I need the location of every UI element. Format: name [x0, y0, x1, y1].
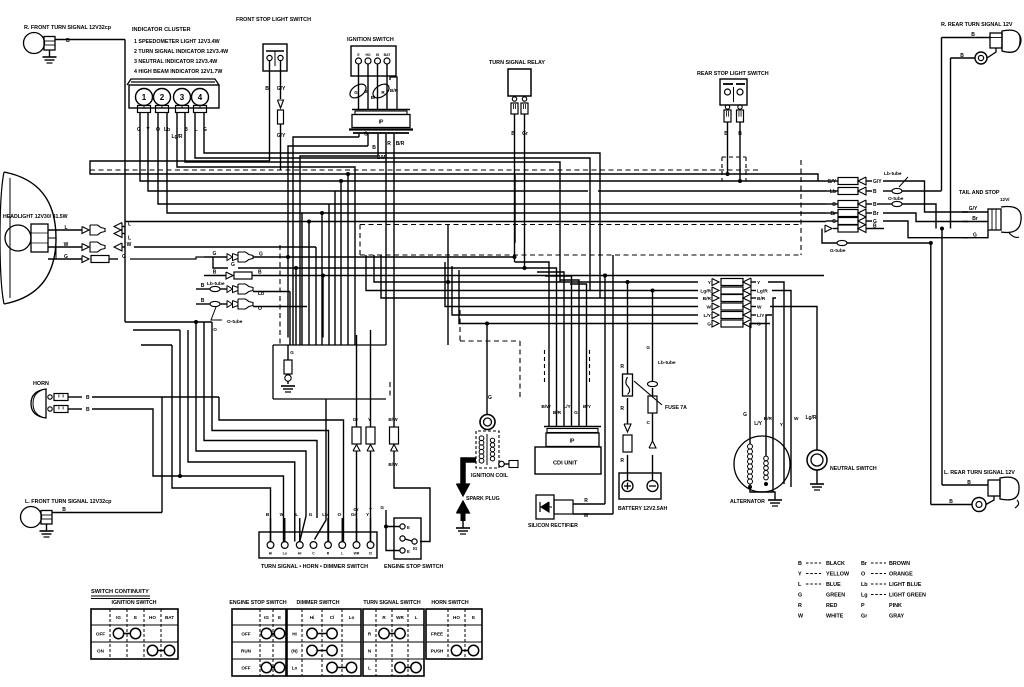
svg-text:2 TURN SIGNAL INDICATOR 12V: 2 TURN SIGNAL INDICATOR 12V3.4W: [134, 49, 228, 55]
wire G/Y tail: [962, 206, 988, 212]
ignition coil ring: [480, 415, 495, 430]
svg-text:Hi: Hi: [292, 632, 297, 637]
svg-text:ENGINE STOP SWITCH: ENGINE STOP SWITCH: [384, 564, 444, 570]
label R REAR TURN SIGNAL: [941, 22, 1013, 28]
ignition switch table: [91, 600, 178, 659]
wire B to ring terminal: [951, 53, 976, 59]
bus Y row: [374, 255, 698, 284]
svg-text:E: E: [472, 615, 475, 620]
svg-text:L: L: [128, 236, 131, 242]
svg-text:GREEN: GREEN: [826, 593, 845, 599]
svg-text:Br: Br: [830, 211, 836, 217]
indicator cluster housing: [127, 79, 219, 108]
tail stop lamp: [988, 207, 1021, 238]
svg-text:B: B: [86, 407, 90, 413]
rectifier wire R: [573, 276, 605, 505]
svg-text:L/Y: L/Y: [704, 313, 712, 319]
dashed box lower: [280, 245, 520, 399]
CDI dashed sides: [545, 350, 590, 382]
svg-text:INDICATOR CLUSTER: INDICATOR CLUSTER: [132, 27, 191, 33]
indicator lamp 1: [136, 89, 153, 113]
svg-text:G: G: [213, 251, 217, 257]
svg-text:1: 1: [142, 93, 147, 102]
svg-text:W: W: [280, 512, 285, 517]
svg-text:R: R: [620, 364, 624, 370]
svg-text:W: W: [757, 305, 762, 311]
svg-text:IG: IG: [116, 615, 121, 620]
bus G row: [459, 270, 698, 326]
switch block box: [259, 532, 377, 558]
svg-text:O: O: [213, 327, 217, 332]
svg-text:HORN SWITCH: HORN SWITCH: [431, 600, 468, 606]
svg-text:C: C: [647, 420, 651, 426]
alternator circle: [734, 436, 790, 492]
svg-text:WHITE: WHITE: [826, 614, 844, 620]
wire B to R rear turn signal: [942, 32, 991, 38]
svg-text:HO: HO: [365, 53, 370, 57]
mesh lb o drops: [289, 292, 291, 346]
mesh upper band: [140, 122, 826, 345]
engine stop switch box: [394, 518, 421, 559]
ignition connector loop 2: [370, 81, 398, 100]
svg-text:Lb: Lb: [830, 189, 836, 195]
svg-text:4 HIGH BEAM INDICATOR 12V1.: 4 HIGH BEAM INDICATOR 12V1.7W: [134, 69, 222, 75]
label TURN SIGNAL RELAY: [489, 60, 545, 66]
wire BW from IP: [300, 155, 387, 345]
label ENGINE STOP SWITCH: [384, 564, 444, 570]
svg-text:G: G: [64, 254, 68, 260]
label 3 neutral indicator: [134, 59, 217, 65]
svg-text:WR: WR: [354, 552, 360, 556]
svg-text:B: B: [62, 507, 66, 513]
svg-text:B: B: [873, 202, 877, 208]
lamp R rear turn signal: [990, 30, 1021, 52]
label NEUTRAL SWITCH: [830, 466, 877, 472]
svg-text:B: B: [873, 224, 877, 230]
alternator wire W: [791, 343, 799, 455]
CDI verticals: [515, 262, 587, 426]
svg-text:G: G: [259, 252, 263, 258]
svg-text:IG: IG: [376, 53, 380, 57]
horn terminals: [48, 394, 68, 413]
wire B from L front turn signal: [52, 397, 162, 513]
lamp L rear turn signal: [988, 477, 1019, 508]
label TURN SIGNAL HORN DIMMER SWITCH: [261, 564, 368, 570]
label B mid: [184, 127, 188, 133]
svg-text:B: B: [971, 32, 975, 38]
label 1 speedometer light: [134, 39, 220, 45]
svg-text:BLUE: BLUE: [826, 582, 841, 588]
dashed box center: [360, 160, 801, 255]
svg-text:NEUTRAL SWITCH: NEUTRAL SWITCH: [830, 466, 877, 472]
svg-text:ON: ON: [97, 649, 105, 654]
IP wires down: [359, 134, 394, 170]
wire B from IP: [288, 145, 376, 257]
column C right links: [750, 282, 817, 343]
legend column 2: [861, 561, 926, 620]
svg-text:B: B: [949, 499, 953, 505]
svg-text:GRAY: GRAY: [889, 614, 904, 620]
engine stop contacts: [400, 524, 418, 554]
connector B row O: [196, 298, 307, 312]
label G Y: [137, 127, 150, 133]
column A link Lb row: [920, 190, 942, 192]
battery terminals: [622, 481, 658, 492]
label FRONT STOP LIGHT SWITCH: [236, 17, 311, 23]
svg-text:Cl: Cl: [330, 615, 335, 620]
svg-text:IP: IP: [570, 439, 575, 445]
svg-text:B/W: B/W: [388, 462, 398, 468]
silicon rectifier box: [536, 495, 573, 519]
label SILICON RECTIFIER: [528, 523, 578, 529]
mesh trunk to switch 2: [212, 322, 329, 542]
label FUSE 7A: [634, 381, 687, 411]
headlight wire L: [48, 222, 131, 242]
svg-text:G: G: [309, 512, 313, 517]
svg-text:E: E: [134, 615, 137, 620]
svg-text:G: G: [574, 410, 578, 416]
svg-text:3 NEUTRAL INDICATOR 12V3.4W: 3 NEUTRAL INDICATOR 12V3.4W: [134, 59, 217, 65]
wire G tail: [962, 230, 988, 239]
svg-text:W: W: [794, 416, 799, 422]
label SPARK PLUG: [466, 496, 500, 502]
svg-text:Hi: Hi: [310, 615, 315, 620]
svg-text:G: G: [757, 322, 761, 328]
svg-text:Gr: Gr: [351, 512, 357, 517]
svg-text:B: B: [265, 86, 269, 92]
svg-text:G: G: [707, 322, 711, 328]
rear stop light switch body: [720, 79, 747, 105]
svg-text:B: B: [511, 131, 515, 137]
horn body: [31, 389, 46, 418]
indicator lamp 4: [192, 89, 209, 113]
svg-text:ALTERNATOR: ALTERNATOR: [730, 499, 765, 505]
svg-text:SWITCH CONTINUITY: SWITCH CONTINUITY: [91, 589, 149, 595]
svg-text:FRONT STOP LIGHT SWITCH: FRONT STOP LIGHT SWITCH: [236, 17, 311, 23]
svg-text:G: G: [231, 262, 235, 268]
svg-text:Hi: Hi: [298, 552, 301, 556]
bus y221 from x125: [125, 221, 826, 223]
svg-text:B: B: [86, 395, 90, 401]
mesh band A row2: [598, 190, 826, 192]
connector B row G return: [213, 257, 527, 270]
ignition coil box: [476, 431, 499, 468]
svg-text:R: R: [620, 458, 624, 464]
wire G from IP: [293, 132, 368, 346]
wire B from R front turn signal: [55, 38, 125, 322]
svg-text:G: G: [354, 90, 358, 95]
ground R front turn signal: [43, 50, 57, 63]
svg-text:R: R: [798, 603, 802, 609]
svg-text:O: O: [258, 306, 262, 312]
neutral switch ground: [810, 470, 824, 490]
ignition connector loop 1: [347, 81, 368, 100]
turn signal relay terminals: [511, 97, 528, 114]
label L G: [194, 127, 207, 133]
svg-text:TURN SIGNAL • HORN • DIMMER: TURN SIGNAL • HORN • DIMMER SWITCH: [261, 564, 368, 570]
flasher ground component: [281, 345, 295, 392]
ground L front turn signal: [40, 524, 54, 537]
resistor chain Gr: [352, 335, 361, 542]
svg-text:B: B: [873, 189, 877, 195]
label B/R from IP: [396, 141, 405, 147]
wire Br tail: [962, 216, 988, 222]
column A link O row: [925, 204, 936, 229]
turn signal relay body: [508, 69, 531, 96]
svg-text:Lg/R: Lg/R: [700, 289, 711, 295]
svg-text:W: W: [64, 242, 69, 248]
svg-text:OFF: OFF: [241, 632, 250, 637]
svg-text:R: R: [387, 141, 391, 147]
horn switch table: [426, 600, 482, 659]
svg-text:SPARK PLUG: SPARK PLUG: [466, 496, 500, 502]
rectifier wire W: [573, 255, 613, 519]
horn wire 2: [68, 407, 180, 476]
svg-text:ORANGE: ORANGE: [889, 572, 913, 578]
svg-text:SILICON RECTIFIER: SILICON RECTIFIER: [528, 523, 578, 529]
alternator ground: [768, 500, 782, 506]
gr y labels2: [353, 507, 372, 512]
svg-text:Lb: Lb: [322, 512, 328, 517]
svg-text:L. FRONT TURN SIGNAL 12V32: L. FRONT TURN SIGNAL 12V32cp: [25, 499, 112, 505]
long vertical right 1: [941, 38, 943, 191]
spark plug: [456, 501, 470, 534]
svg-text:P: P: [861, 603, 865, 609]
svg-text:R: R: [584, 498, 588, 504]
switch block feed wires: [266, 512, 371, 542]
dimmer switch table: [287, 600, 361, 676]
mesh box-top verticals: [296, 172, 350, 345]
indicator lamp 2: [154, 89, 171, 113]
svg-text:IGNITION SWITCH: IGNITION SWITCH: [112, 600, 157, 606]
svg-text:TURN SIGNAL RELAY: TURN SIGNAL RELAY: [489, 60, 545, 66]
svg-text:B: B: [724, 131, 728, 137]
svg-text:Lb: Lb: [258, 291, 264, 297]
rear stop switch connectors: [724, 105, 744, 122]
svg-text:DIMMER SWITCH: DIMMER SWITCH: [297, 600, 340, 606]
svg-text:REAR STOP LIGHT SWITCH: REAR STOP LIGHT SWITCH: [697, 71, 769, 77]
svg-text:ENGINE STOP SWITCH: ENGINE STOP SWITCH: [229, 600, 286, 606]
legend column 1: [798, 561, 850, 620]
mesh trunk to switch 5: [188, 330, 295, 542]
mesh trunk to switch 1: [219, 397, 344, 542]
svg-text:IGNITION COIL: IGNITION COIL: [471, 473, 509, 479]
label Lg/R: [171, 134, 182, 140]
label 2 turn signal indicator: [134, 49, 228, 55]
spark plug thick wire: [457, 460, 477, 496]
svg-text:G: G: [743, 412, 747, 418]
label L REAR TURN SIGNAL: [944, 470, 1015, 476]
svg-text:G: G: [364, 132, 368, 138]
indicator lamp 3: [174, 89, 191, 113]
svg-text:BLACK: BLACK: [826, 561, 845, 567]
turn signal relay wires: [511, 114, 528, 268]
wire B from front stop switch: [90, 61, 818, 182]
headlight junction: [48, 238, 56, 259]
ring terminal L rear: [972, 496, 994, 512]
svg-text:TAIL AND STOP: TAIL AND STOP: [959, 190, 1000, 196]
ring terminal R rear: [975, 48, 996, 64]
svg-text:L: L: [341, 552, 343, 556]
svg-text:Br: Br: [972, 216, 978, 222]
svg-text:L. REAR TURN SIGNAL 12V: L. REAR TURN SIGNAL 12V: [944, 470, 1015, 476]
engine stop switch table: [229, 600, 286, 676]
alternator junctions: [748, 450, 791, 500]
svg-text:Y: Y: [369, 507, 372, 512]
turn signal switch table: [363, 600, 424, 676]
svg-text:B: B: [967, 480, 971, 486]
svg-text:Lg/R: Lg/R: [757, 289, 768, 295]
svg-text:G/Y: G/Y: [969, 206, 978, 212]
label 4 high beam indicator: [134, 69, 222, 75]
alternator wire G: [743, 343, 750, 444]
svg-text:Br: Br: [861, 561, 868, 567]
label ALTERNATOR: [730, 499, 765, 505]
svg-text:O: O: [337, 512, 341, 517]
ignition switch wires down: [359, 64, 398, 109]
svg-text:IG: IG: [413, 546, 417, 551]
svg-text:HEADLIGHT 12V30/ 31.5W: HEADLIGHT 12V30/ 31.5W: [3, 214, 68, 220]
label L FRONT TURN SIGNAL: [25, 499, 112, 505]
wire B to L rear turn signal: [942, 480, 988, 486]
svg-text:G/Y: G/Y: [827, 179, 836, 185]
connector column C: [700, 278, 768, 328]
bus LY row: [452, 266, 698, 315]
switch diagonal wire: [315, 399, 327, 540]
svg-text:R. REAR TURN SIGNAL 12V: R. REAR TURN SIGNAL 12V: [941, 22, 1013, 28]
horn wire 1: [68, 395, 219, 401]
resistor chain Y: [366, 330, 375, 542]
label HEADLIGHT: [3, 214, 68, 220]
mesh vertical x448: [446, 225, 450, 346]
svg-text:B/R: B/R: [764, 416, 773, 422]
svg-text:L: L: [64, 225, 67, 231]
svg-text:L/Y: L/Y: [563, 404, 571, 410]
connector B row G: [204, 251, 517, 262]
headlight wire G: [48, 254, 204, 263]
svg-text:HO: HO: [453, 615, 460, 620]
svg-text:YELLOW: YELLOW: [826, 572, 850, 578]
svg-text:RED: RED: [826, 603, 837, 609]
mesh trunk to switch 6: [178, 330, 284, 542]
svg-text:G: G: [290, 350, 294, 355]
svg-text:G: G: [488, 395, 492, 401]
neutral switch wire: [805, 343, 817, 450]
alternator coil 2: [764, 456, 769, 480]
svg-text:HORN: HORN: [33, 381, 49, 387]
label HORN: [33, 381, 49, 387]
headlight wire W: [48, 242, 316, 252]
battery minus chain: [646, 289, 675, 481]
svg-text:BAT: BAT: [384, 53, 392, 57]
label O Lb: [156, 127, 170, 133]
svg-text:OFF: OFF: [241, 666, 250, 671]
CDI unit box: [535, 447, 601, 474]
IP block ignition: [349, 110, 413, 134]
mesh trunk to switch 4: [196, 322, 306, 542]
svg-text:B: B: [258, 270, 262, 276]
long vertical right 2: [950, 58, 952, 229]
svg-text:R. FRONT TURN SIGNAL 12V32: R. FRONT TURN SIGNAL 12V32cp: [24, 25, 112, 31]
svg-text:B: B: [738, 131, 742, 137]
svg-text:B: B: [960, 53, 964, 59]
svg-text:L/Y: L/Y: [754, 421, 762, 427]
rear stop switch dashed box: [722, 157, 746, 181]
svg-text:IP: IP: [379, 120, 384, 126]
svg-text:B: B: [213, 270, 217, 276]
svg-text:2: 2: [160, 93, 165, 102]
svg-text:L: L: [415, 615, 418, 620]
svg-text:G: G: [122, 254, 126, 260]
ignition switch body: [351, 46, 396, 76]
svg-text:B: B: [201, 298, 205, 304]
svg-text:Lb-tube: Lb-tube: [884, 171, 902, 177]
svg-text:Lo: Lo: [349, 615, 355, 620]
svg-text:W: W: [584, 513, 589, 519]
svg-text:G-tube: G-tube: [830, 248, 846, 254]
svg-text:Gr: Gr: [861, 614, 868, 620]
svg-text:O: O: [832, 202, 836, 208]
svg-text:LIGHT BLUE: LIGHT BLUE: [889, 582, 922, 588]
svg-text:B/R: B/R: [553, 410, 562, 416]
svg-text:Br: Br: [873, 211, 879, 217]
svg-text:O: O: [861, 572, 865, 578]
svg-text:B/W: B/W: [388, 417, 398, 423]
label IGNITION COIL: [471, 473, 509, 479]
mesh trunk to switch 7: [172, 345, 271, 542]
bus BR row: [381, 255, 698, 298]
svg-text:PUSH: PUSH: [431, 649, 444, 654]
neutral switch: [807, 450, 827, 470]
label IGNITION SWITCH: [347, 37, 394, 43]
alternator wire Y: [780, 343, 784, 462]
headlight bulb: [5, 224, 48, 252]
svg-text:W: W: [127, 242, 132, 248]
svg-text:Y: Y: [798, 572, 802, 578]
svg-text:BROWN: BROWN: [889, 561, 910, 567]
svg-text:B/R: B/R: [757, 296, 766, 302]
wire G/Y from front stop switch: [277, 61, 286, 171]
svg-text:B/R: B/R: [390, 88, 399, 93]
svg-text:Lg: Lg: [861, 593, 868, 599]
svg-text:IGNITION SWITCH: IGNITION SWITCH: [347, 37, 394, 43]
svg-text:R: R: [620, 406, 624, 412]
column A link G/Y: [883, 181, 968, 212]
mesh center verticals: [515, 164, 600, 298]
svg-text:OFF: OFF: [96, 632, 105, 637]
headlight shell: [0, 172, 56, 304]
bus LgR row: [366, 255, 698, 291]
CDI wire labels: [541, 404, 591, 416]
svg-text:B/R: B/R: [396, 141, 405, 147]
bus W row: [445, 262, 698, 307]
Lb-tube marker: [883, 171, 920, 194]
svg-text:G: G: [798, 593, 802, 599]
resistor chain B/W: [388, 170, 430, 542]
svg-text:IG: IG: [264, 615, 269, 620]
svg-text:Lb: Lb: [861, 582, 868, 588]
svg-text:1 SPEEDOMETER LIGHT 12V3.4W: 1 SPEEDOMETER LIGHT 12V3.4W: [134, 39, 220, 45]
label REAR STOP LIGHT SWITCH: [697, 71, 769, 77]
svg-text:Gr: Gr: [522, 131, 528, 137]
IP R drop: [385, 170, 387, 345]
wire B to L ring: [931, 499, 972, 505]
engine stop left wires: [380, 505, 400, 551]
lamp R front turn signal: [24, 33, 56, 54]
svg-text:B: B: [372, 145, 376, 151]
svg-text:Cl: Cl: [369, 552, 372, 556]
lamp L front turn signal: [21, 507, 53, 528]
